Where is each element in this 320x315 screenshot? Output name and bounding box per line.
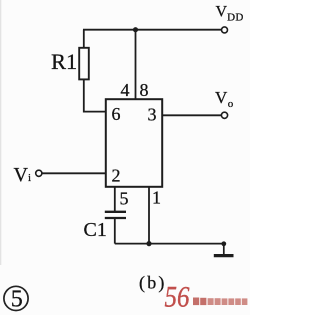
ground symbol [214,241,234,255]
svg-text:56: 56 [165,281,190,314]
wire Vi to pin 2 [42,172,105,174]
svg-text:R1: R1 [51,49,77,74]
svg-text:2: 2 [112,166,121,186]
svg-text:5: 5 [11,287,23,313]
svg-text:4: 4 [121,80,130,100]
terminal Vi open circle [36,170,42,176]
wire pin 3 output [162,114,221,116]
node junction VDD rail [133,27,138,32]
svg-text:VDD: VDD [216,4,244,24]
svg-text:C1: C1 [84,219,107,241]
node junction pin 1 and ground rail [146,241,151,246]
svg-text:6: 6 [112,104,121,124]
wire VDD rail top horizontal [83,29,222,31]
terminal VDD open circle [222,27,228,33]
wire R1 bottom lead to pin 6 [84,79,105,111]
svg-text:8: 8 [140,80,149,100]
scan edge artifact [0,0,1,265]
watermark small red characters [193,298,247,306]
capacitor C1 plates [105,211,126,213]
wire pin 1 lead [148,187,150,244]
svg-text:5: 5 [120,189,129,209]
svg-text:3: 3 [148,105,157,125]
wire R1 top lead [83,30,85,48]
wire ground rail bottom horizontal [115,243,224,245]
resistor R1 [79,48,89,80]
svg-text:(b): (b) [139,272,167,293]
figure number circled 5 [4,286,28,312]
IC U1 body [106,99,162,187]
wire pin 5 lead [114,187,116,211]
svg-text:Vi: Vi [14,164,32,186]
svg-text:Vo: Vo [215,88,234,110]
wire C1 bottom lead [114,219,116,244]
svg-text:1: 1 [152,188,161,208]
terminal Vo open circle [221,112,227,118]
wire pins 4/8 from VDD rail [135,30,137,99]
